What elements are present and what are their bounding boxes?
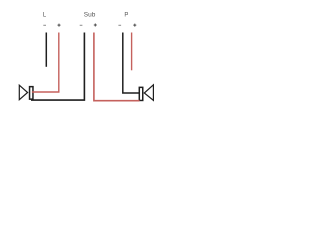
svg-text:Sub: Sub — [84, 12, 96, 19]
terminal P plus label — [133, 24, 136, 27]
wire Sub- black to left speaker bottom terminal — [31, 33, 84, 101]
left speaker driver rectangle — [30, 87, 33, 100]
wire P- black to right speaker top terminal — [123, 33, 140, 94]
terminal P minus label — [118, 24, 121, 27]
right speaker driver rectangle — [139, 87, 142, 100]
left speaker cone triangle — [19, 85, 27, 100]
svg-text:P: P — [124, 12, 128, 18]
right speaker cone triangle — [144, 85, 153, 101]
wire P+ red stub — [131, 33, 133, 71]
wire Sub+ red to right speaker bottom terminal — [94, 33, 140, 101]
terminal L plus label — [58, 24, 61, 27]
wire L+ red to left speaker top terminal — [32, 33, 59, 93]
terminal L minus label — [43, 24, 46, 27]
terminal Sub minus label — [80, 24, 83, 27]
svg-text:L: L — [43, 12, 47, 19]
wire L- black stub — [45, 33, 47, 67]
terminal Sub plus label — [94, 24, 97, 27]
